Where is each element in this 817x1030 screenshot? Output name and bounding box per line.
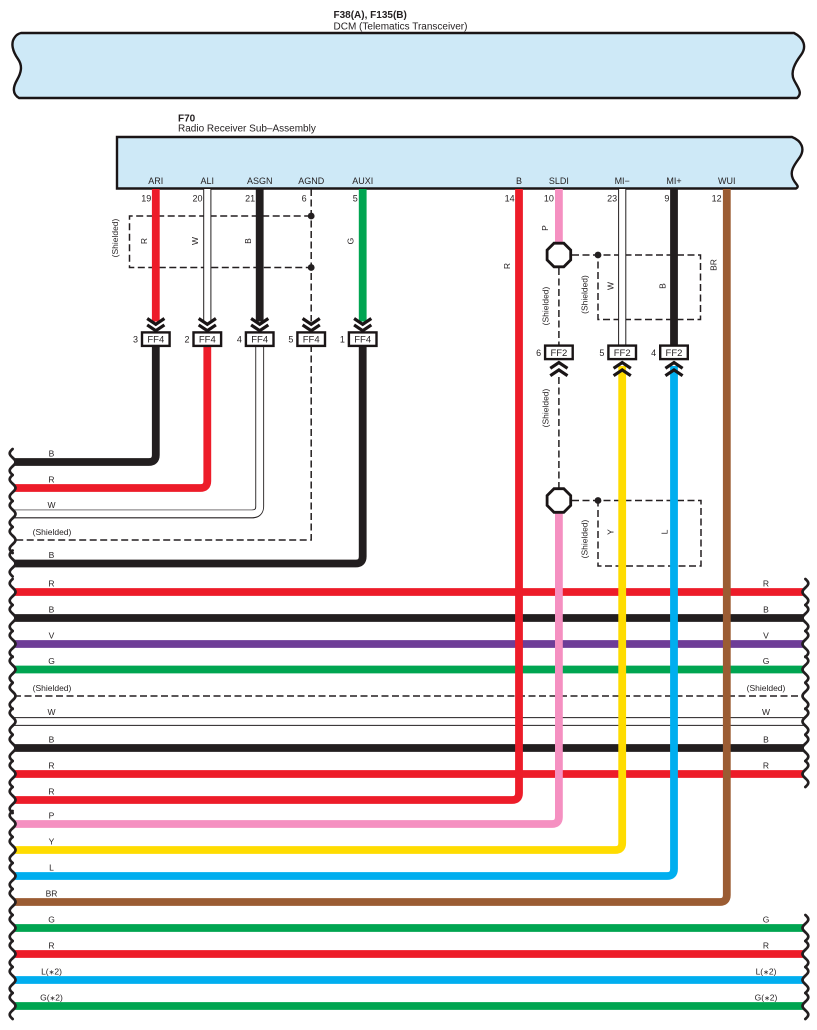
svg-text:FF4: FF4 (354, 335, 371, 346)
right wire-break squiggles (803, 579, 809, 1019)
svg-text:ASGN: ASGN (247, 176, 273, 186)
wires below FF4 connectors (14, 345, 363, 564)
connector FF4-1 arrow (354, 319, 371, 331)
wire ARI R (pin 19) (152, 189, 160, 322)
svg-text:FF2: FF2 (666, 348, 683, 359)
svg-text:(Shielded): (Shielded) (110, 218, 120, 257)
wire bus B y618 (14, 614, 804, 622)
horizontal row labels (right) (747, 579, 786, 1003)
svg-text:V: V (763, 631, 769, 641)
svg-text:20: 20 (192, 194, 202, 204)
wire break left row824 (10, 811, 16, 837)
svg-text:14: 14 (505, 194, 515, 204)
svg-text:R: R (763, 761, 769, 771)
wire bus V y644 (14, 640, 804, 648)
svg-text:G: G (763, 915, 770, 925)
connector FF4-1 box (349, 332, 377, 346)
svg-text:R: R (139, 238, 149, 244)
svg-text:G: G (346, 238, 356, 245)
wire break right row954 (803, 941, 809, 967)
shield octagon 2 (547, 489, 571, 513)
connector band F38(A)/F135(B) DCM (Telematics Transceiver) (12, 33, 804, 98)
svg-text:P: P (49, 811, 55, 821)
svg-text:FF4: FF4 (199, 335, 216, 346)
wire R from pin B(14) down and left y800 (14, 189, 519, 800)
wire break right row696 (803, 683, 809, 709)
wire bus R y592 (14, 588, 804, 596)
wire bus G y669.5 (14, 666, 804, 674)
wire break left row721.5 (10, 709, 16, 735)
svg-text:6: 6 (302, 194, 307, 204)
shield octagon 1 (SLDI) (547, 243, 571, 267)
wire AUXI G (pin 5) (359, 189, 367, 322)
svg-text:(Shielded): (Shielded) (580, 275, 590, 314)
wire break left row876 (10, 863, 16, 889)
svg-text:9: 9 (664, 194, 669, 204)
svg-text:(Shielded): (Shielded) (541, 388, 551, 427)
svg-text:BR: BR (708, 259, 718, 271)
svg-text:B: B (49, 550, 55, 560)
svg-text:5: 5 (288, 335, 293, 345)
wire P below octagon2 down and left y824 (14, 513, 559, 824)
wire break left row954 (10, 941, 16, 967)
svg-text:F38(A), F135(B): F38(A), F135(B) (334, 10, 407, 21)
connector FF4-3 box (142, 332, 170, 346)
svg-text:W: W (190, 237, 200, 245)
wire W below FF4-4 bending left y514 outline (14, 345, 260, 514)
wire bus G(*2) y1006 (14, 1002, 804, 1010)
wire break right row592 (803, 579, 809, 605)
svg-text:W: W (47, 707, 55, 717)
wire MI- W (pin 23) outline to FF2-5 (618, 189, 626, 346)
wire break right row774 (803, 761, 809, 787)
wire MI+ B (pin 9) to FF2-4 (670, 189, 678, 346)
svg-text:(Shielded): (Shielded) (33, 683, 72, 693)
svg-text:G: G (48, 656, 55, 666)
svg-text:FF4: FF4 (147, 335, 164, 346)
svg-text:R: R (763, 941, 769, 951)
wire B below FF4-1 bending left y563.5 (14, 345, 363, 564)
wire break right row644 (803, 631, 809, 657)
svg-text:6: 6 (536, 348, 541, 358)
svg-text:5: 5 (353, 194, 358, 204)
wire shield drain below FF4-5 bending left (14, 345, 311, 540)
svg-text:MI+: MI+ (666, 176, 681, 186)
wire bus W y721.5 outline (14, 717, 804, 726)
svg-text:AGND: AGND (298, 176, 325, 186)
svg-text:R: R (763, 579, 769, 589)
connector FF4-4 box (246, 332, 274, 346)
wire SLDI P (pin 10) to octagon1 (555, 189, 563, 243)
svg-text:23: 23 (607, 194, 617, 204)
svg-text:ARI: ARI (148, 176, 163, 186)
wire break right row928 (803, 915, 809, 941)
svg-text:12: 12 (712, 194, 722, 204)
svg-text:4: 4 (651, 348, 656, 358)
wire break left row618 (10, 605, 16, 631)
shielded bus dashed row y696 (14, 695, 804, 697)
junction dot shield box1 (595, 252, 602, 259)
svg-text:L: L (660, 529, 670, 534)
svg-text:Y: Y (606, 529, 616, 535)
svg-text:B: B (763, 605, 769, 615)
shield box around Y/L wires (572, 501, 701, 567)
svg-text:R: R (502, 263, 512, 269)
svg-text:FF2: FF2 (550, 348, 567, 359)
svg-text:B: B (49, 605, 55, 615)
wire break right row721.5 (803, 709, 809, 735)
connector FF2-4 box (660, 346, 688, 360)
svg-text:10: 10 (544, 194, 554, 204)
svg-text:2: 2 (184, 335, 189, 345)
svg-text:W: W (606, 282, 616, 290)
svg-text:B: B (763, 735, 769, 745)
svg-text:R: R (48, 941, 54, 951)
connector FF4-2 box (194, 332, 222, 346)
wire break left row669.5 (10, 657, 16, 683)
svg-text:B: B (49, 735, 55, 745)
svg-text:(Shielded): (Shielded) (33, 527, 72, 537)
wire break right row980 (803, 967, 809, 993)
connector FF4-2 arrow (199, 319, 216, 331)
svg-text:B: B (658, 283, 668, 289)
wire bus R y774 (14, 770, 804, 778)
svg-text:W: W (47, 500, 55, 510)
wire break left row928 (10, 915, 16, 941)
full-width horizontal bus wires (14, 592, 804, 1006)
svg-text:WUI: WUI (718, 176, 736, 186)
wire break left row774 (10, 761, 16, 787)
wire R below FF4-2 bending left y488 (14, 345, 207, 488)
wire break left row980 (10, 967, 16, 993)
wire break left row488 (10, 475, 16, 501)
connector FF2-5 arrow (614, 363, 631, 376)
connector FF4-4 arrow (251, 319, 268, 331)
svg-text:19: 19 (141, 194, 151, 204)
svg-text:V: V (49, 631, 55, 641)
svg-text:DCM (Telematics Transceiver): DCM (Telematics Transceiver) (334, 22, 468, 33)
wire break left row1006 (10, 993, 16, 1019)
svg-text:B: B (243, 238, 253, 244)
shield box around ARI/ALI/ASGN wires (130, 216, 312, 268)
wire break right row748 (803, 735, 809, 761)
wire break right row618 (803, 605, 809, 631)
svg-text:B: B (49, 449, 55, 459)
SHIELD-DASHED-GROUP (14, 189, 804, 696)
svg-text:Y: Y (49, 837, 55, 847)
wire break left row850 (10, 837, 16, 863)
svg-text:L: L (49, 863, 54, 873)
connector band F70 Radio Receiver Sub-Assembly (117, 137, 802, 189)
wire bus G y928 (14, 924, 804, 932)
svg-text:R: R (48, 579, 54, 589)
wire break left row696 (10, 683, 16, 709)
wire break left row644 (10, 631, 16, 657)
connector FF4-5 arrow (303, 319, 320, 331)
svg-text:FF4: FF4 (251, 335, 268, 346)
svg-text:G: G (763, 656, 770, 666)
pin wires at top (156, 189, 674, 346)
svg-text:R: R (48, 475, 54, 485)
wire break right row1006 (803, 993, 809, 1019)
wire AGND shield drain (pin 6 to FF4-5) (310, 189, 312, 322)
svg-text:(Shielded): (Shielded) (747, 683, 786, 693)
svg-text:B: B (516, 176, 522, 186)
wire bus B y748 (14, 744, 804, 752)
svg-text:AUXI: AUXI (352, 176, 373, 186)
wire ASGN B (pin 21) (256, 189, 264, 322)
svg-text:FF2: FF2 (614, 348, 631, 359)
svg-text:21: 21 (245, 194, 255, 204)
wire Y below FF2-5 down and left y850 (14, 366, 622, 850)
svg-text:(Shielded): (Shielded) (580, 519, 590, 558)
connector FF2-5 box (608, 346, 636, 360)
wire break left row563.5 (10, 551, 16, 577)
connector FF4-3 arrow (147, 319, 164, 331)
connector FF2-6 box (545, 346, 573, 360)
svg-text:(Shielded): (Shielded) (541, 286, 551, 325)
connector FF2-4 arrow (665, 363, 682, 376)
svg-text:R: R (48, 761, 54, 771)
wire bus R y954 (14, 950, 804, 958)
junction dot shield box2 (595, 497, 602, 504)
connector FF4-5 box (297, 332, 325, 346)
wire break left row540 (10, 527, 16, 553)
wire break left row902 (10, 889, 16, 915)
wire break left row592 (10, 579, 16, 605)
wire ALI W (pin 20) outline (203, 189, 211, 322)
svg-text:MI−: MI− (615, 176, 630, 186)
wire break left row462 (10, 449, 16, 475)
wire break left row748 (10, 735, 16, 761)
svg-text:SLDI: SLDI (549, 176, 569, 186)
rotated wire colour labels (110, 218, 718, 558)
wire B below FF4-3 bending left y462 (14, 345, 156, 462)
svg-text:W: W (762, 707, 770, 717)
junction dot AGND/shield top (308, 213, 315, 220)
svg-text:4: 4 (237, 335, 242, 345)
connector FF2-6 arrow (550, 363, 567, 376)
junction dot AGND/shield bottom (308, 264, 315, 271)
svg-text:ALI: ALI (201, 176, 215, 186)
svg-text:P: P (540, 225, 550, 231)
wire shield drain below FF2-6 to octagon2 (558, 377, 560, 488)
svg-text:R: R (48, 787, 54, 797)
horizontal row labels (left) (33, 449, 72, 1003)
vertical wires crossing buses (14, 189, 727, 902)
svg-text:FF4: FF4 (303, 335, 320, 346)
svg-text:G: G (48, 915, 55, 925)
svg-text:BR: BR (46, 889, 58, 899)
shield box around MI-/MI+ wires (572, 255, 701, 320)
svg-text:1: 1 (340, 335, 345, 345)
svg-text:5: 5 (599, 348, 604, 358)
wire bus L(*2) y980 (14, 976, 804, 984)
svg-text:Radio Receiver Sub–Assembly: Radio Receiver Sub–Assembly (178, 124, 316, 135)
svg-text:3: 3 (133, 335, 138, 345)
wire break left row514 (10, 501, 16, 527)
wire break right row669.5 (803, 657, 809, 683)
left wire-break squiggles (10, 449, 16, 1019)
wire L below FF2-4 down and left y876 (14, 366, 674, 876)
wire BR from pin WUI(12) down and left y902 (14, 189, 727, 902)
wire break left row800 (10, 787, 16, 813)
wire shield drain octagon1 to FF2-6 (558, 268, 560, 346)
